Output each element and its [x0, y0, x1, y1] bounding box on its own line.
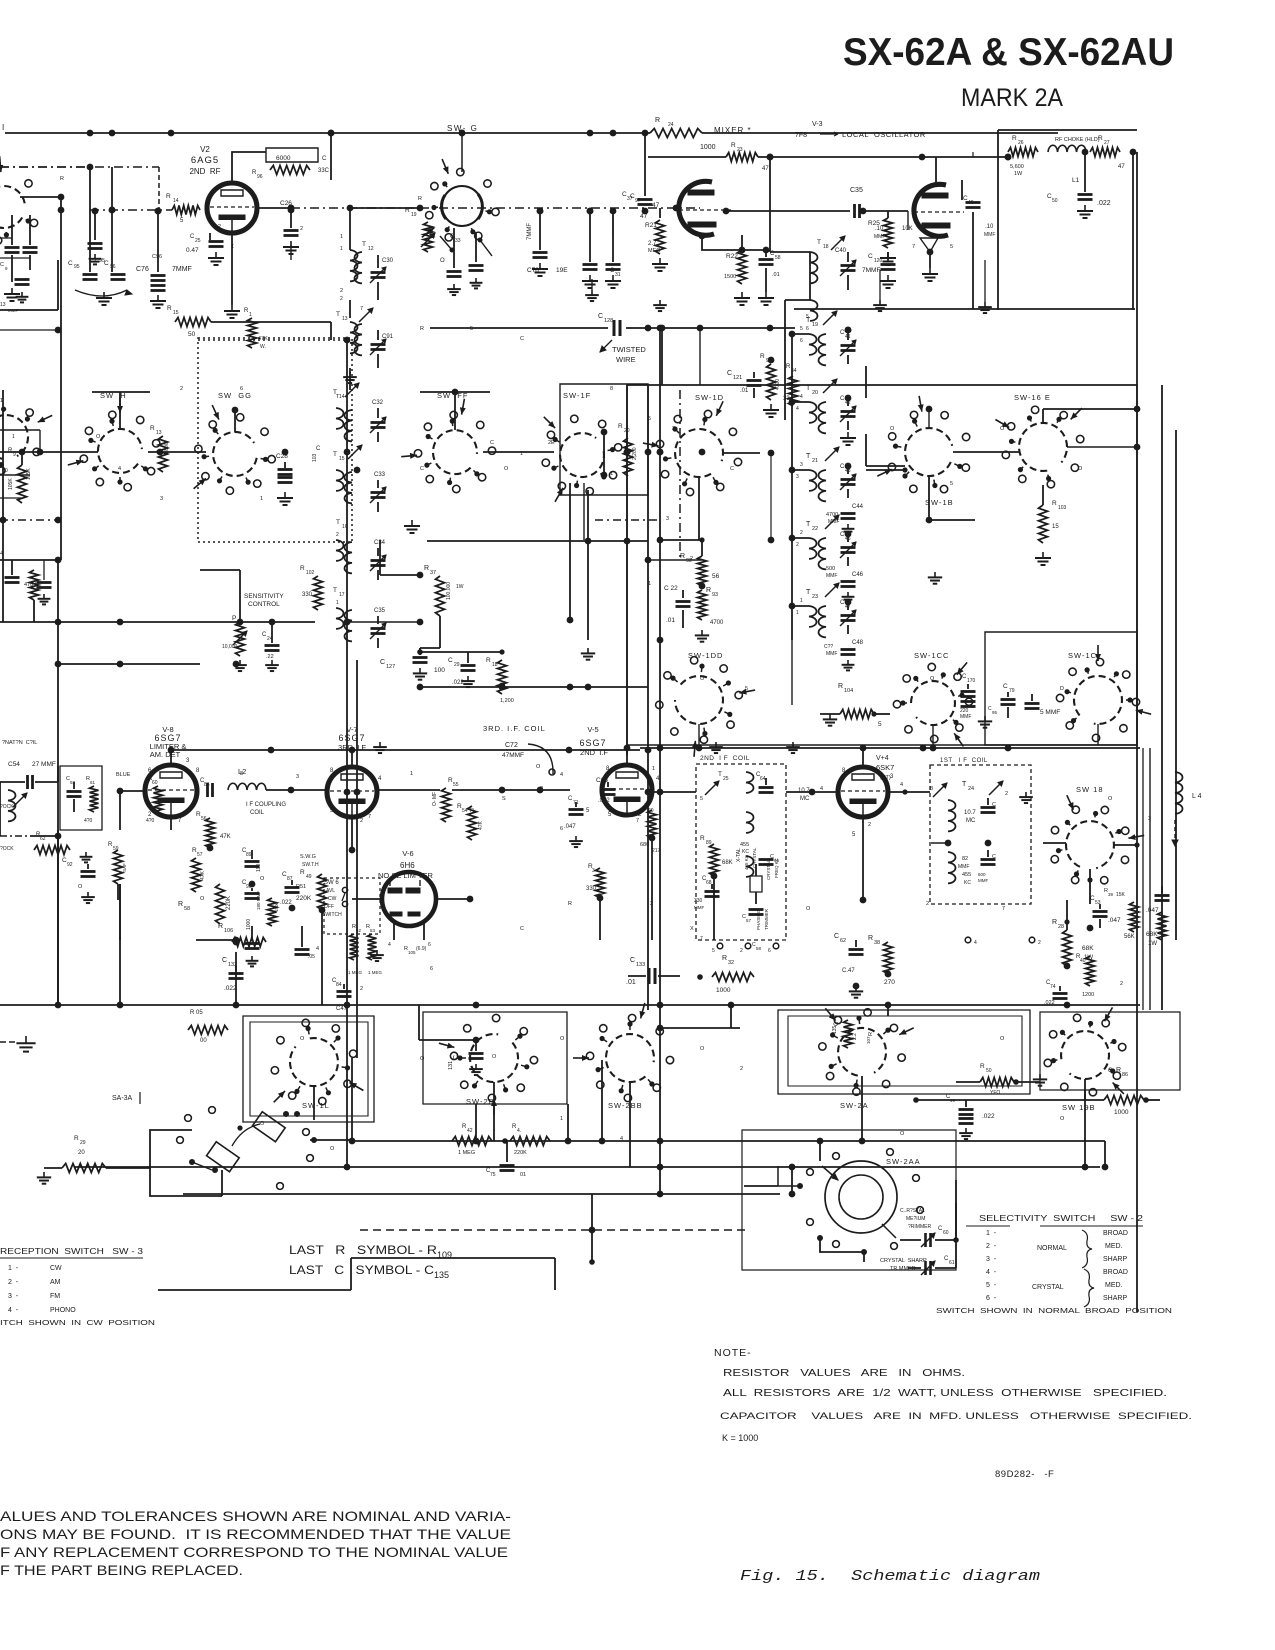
svg-text:C48: C48	[852, 640, 864, 646]
svg-text:68K: 68K	[1146, 931, 1158, 938]
svg-text:6: 6	[768, 948, 771, 954]
svg-text:R: R	[1052, 500, 1057, 507]
label V2 6AG5	[189, 145, 220, 176]
svg-text:15K: 15K	[1116, 892, 1126, 898]
svg-text:6: 6	[806, 326, 809, 332]
svg-text:6SG7: 6SG7	[338, 733, 365, 743]
svg-text:1200: 1200	[1082, 992, 1094, 998]
svg-text:24: 24	[668, 122, 674, 128]
svg-text:217: 217	[652, 848, 661, 854]
svg-text:C: C	[1003, 683, 1008, 690]
wire v x158	[155, 208, 162, 272]
wire R96 to bus	[328, 130, 335, 180]
svg-text:60: 60	[943, 1230, 949, 1236]
svg-text:47K: 47K	[478, 820, 484, 830]
svg-text:93: 93	[712, 592, 718, 598]
svg-text:455: 455	[962, 872, 971, 878]
label SA-3A	[112, 1092, 140, 1104]
svg-text:TRIMMER: TRIMMER	[764, 908, 769, 930]
svg-text:O: O	[78, 884, 83, 890]
wire y385 box top	[627, 384, 1137, 386]
wire twisted pair	[430, 313, 795, 336]
svg-text:5: 5	[648, 416, 651, 422]
svg-text:5: 5	[470, 326, 473, 332]
svg-text:330: 330	[586, 886, 597, 892]
svg-text:T: T	[817, 239, 821, 246]
wire h y1290	[158, 1258, 351, 1290]
svg-text:4700: 4700	[710, 620, 724, 626]
label C54 27MMF	[8, 761, 56, 768]
svg-text:KC: KC	[742, 849, 749, 855]
svg-text:58: 58	[184, 906, 190, 912]
wire sw18 links	[1043, 842, 1140, 930]
wire osc top right	[922, 154, 1011, 161]
label pin nums v5	[606, 766, 660, 824]
capacitor c-left mid	[5, 560, 39, 622]
box row2 right	[627, 385, 1137, 745]
wire sw19b link	[913, 1097, 1104, 1103]
node I left edge	[2, 123, 4, 132]
resistor R58	[178, 884, 232, 924]
svg-text:5: 5	[852, 832, 856, 838]
coil ant	[8, 790, 27, 821]
wire row1 y310	[0, 260, 58, 310]
svg-text:5: 5	[745, 686, 748, 692]
wire osc plate	[935, 157, 937, 183]
wire v x61	[60, 210, 62, 560]
wire h y1005	[0, 1004, 1140, 1006]
svg-text:R: R	[1116, 1067, 1121, 1074]
svg-text:68K: 68K	[1082, 945, 1094, 952]
transformer T25	[705, 771, 810, 833]
wire v6 cathode	[388, 922, 431, 955]
svg-text:K: K	[250, 191, 254, 197]
box left if	[60, 766, 102, 830]
svg-text:84: 84	[336, 982, 342, 988]
resistor R55	[432, 777, 459, 822]
tube V-7	[327, 767, 377, 817]
svg-text:4: 4	[820, 786, 823, 792]
svg-text:BLUE: BLUE	[116, 772, 131, 778]
svg-text:RF CHOKE (HLD): RF CHOKE (HLD)	[1055, 137, 1100, 143]
svg-text:R: R	[418, 196, 422, 202]
wire row2 dots net	[648, 477, 702, 560]
svg-text:R: R	[568, 901, 572, 907]
svg-text:C: C	[992, 802, 996, 808]
svg-text:12: 12	[368, 246, 374, 252]
wire v x998	[997, 130, 999, 310]
transformer T12	[340, 241, 374, 302]
svg-text:O: O	[700, 1046, 705, 1052]
svg-text:O: O	[700, 676, 705, 682]
resistor R93	[695, 587, 724, 642]
capacitor C41 var	[840, 327, 856, 364]
svg-text:SW-2B: SW-2B	[466, 1097, 495, 1106]
svg-text:61: 61	[949, 1260, 955, 1266]
capacitor C84	[332, 978, 352, 997]
svg-text:O: O	[806, 906, 811, 912]
box 1st if coil	[930, 765, 1031, 904]
svg-text:C40: C40	[835, 248, 847, 254]
switch wafer SW-2BB	[573, 1003, 674, 1102]
svg-text:82: 82	[962, 856, 968, 862]
wire x792 extension	[791, 640, 793, 705]
svg-text:2: 2	[650, 901, 653, 907]
label C47b	[336, 1006, 348, 1012]
label pin t numbers	[796, 338, 803, 616]
svg-text:R: R	[486, 657, 491, 664]
capacitor left extra	[37, 560, 52, 604]
svg-text:ALL RESISTORS ARE 1/2 WATT: ALL RESISTORS ARE 1/2 WATT, UNLESS OTHER…	[723, 1388, 1167, 1399]
svg-text:MIXER *: MIXER *	[714, 126, 752, 135]
svg-text:6,800: 6,800	[164, 442, 170, 455]
svg-text:.01: .01	[740, 388, 749, 394]
svg-text:1: 1	[340, 234, 343, 240]
svg-text:8: 8	[610, 386, 613, 392]
svg-text:2ND I F COIL: 2ND I F COIL	[700, 755, 750, 762]
svg-text:57: 57	[197, 852, 203, 858]
svg-text:2: 2	[360, 986, 363, 992]
svg-text:YFO: YFO	[990, 1090, 1000, 1096]
svg-text:58: 58	[756, 946, 762, 951]
svg-text:SENSITIVITY: SENSITIVITY	[244, 593, 284, 600]
wire bus x347	[346, 390, 348, 1058]
label SW-2AA	[886, 1157, 921, 1166]
wire h y309	[794, 308, 1135, 310]
svg-text:13: 13	[0, 302, 6, 308]
wire sa3a drops	[106, 1130, 352, 1196]
label 56K	[1124, 902, 1139, 940]
svg-text:55: 55	[453, 782, 459, 788]
resistor R105b	[188, 1010, 228, 1044]
wire h y1167	[75, 1166, 1133, 1168]
svg-text:37: 37	[430, 570, 436, 576]
coil T24 sec	[948, 852, 971, 886]
resistor R25	[868, 211, 913, 265]
svg-text:5: 5	[700, 796, 703, 802]
capacitor C76 7MMF	[136, 266, 192, 291]
label 5 2 6 pins	[586, 808, 642, 818]
svg-text:R: R	[74, 1135, 79, 1142]
svg-text:SWITCH: SWITCH	[322, 912, 342, 918]
capacitor C35b var	[370, 608, 386, 648]
svg-text:1500: 1500	[724, 274, 736, 280]
wire v x1133	[1130, 149, 1137, 310]
svg-text:220K: 220K	[514, 1150, 527, 1156]
svg-text:33: 33	[455, 238, 461, 244]
svg-text:O: O	[260, 876, 265, 882]
tube V-5	[602, 765, 652, 815]
capacitor C49	[962, 180, 995, 240]
svg-text:23: 23	[812, 594, 818, 600]
wire h y622 long	[0, 621, 315, 623]
svg-text:2ND RF: 2ND RF	[189, 167, 220, 176]
svg-text:R51: R51	[296, 884, 306, 890]
svg-text:.10: .10	[985, 224, 994, 230]
svg-text:.01: .01	[626, 979, 636, 986]
svg-text:C: C	[448, 657, 453, 664]
label R39	[1104, 888, 1126, 898]
svg-text:1: 1	[410, 771, 413, 777]
resistor R92	[680, 553, 720, 586]
svg-text:75: 75	[490, 1172, 496, 1178]
label sel shown	[936, 1306, 1172, 1315]
svg-text:2: 2	[300, 226, 303, 232]
resistor R20	[601, 423, 638, 478]
svg-text:270: 270	[884, 979, 895, 986]
svg-text:C: C	[834, 1021, 840, 1026]
tube V-4	[838, 767, 888, 817]
svg-text:5: 5	[586, 808, 590, 814]
label SW-1D	[695, 393, 724, 402]
resistor R13	[150, 425, 170, 472]
svg-text:1,200: 1,200	[500, 698, 514, 704]
wire left y520 dd	[0, 519, 60, 521]
svg-text:COIL: COIL	[250, 810, 265, 816]
wire t24 feed	[888, 782, 948, 843]
switch wafer SW-18	[1051, 795, 1144, 884]
svg-text:1 -: 1 -	[986, 1230, 997, 1237]
capacitor C62	[834, 933, 864, 998]
svg-text:97: 97	[635, 198, 641, 204]
label SW-16E	[1014, 393, 1051, 402]
svg-text:39: 39	[1108, 892, 1114, 897]
svg-text:4: 4	[900, 782, 903, 788]
svg-text:29: 29	[454, 662, 460, 668]
capacitor C121	[727, 370, 762, 398]
wire v drops bottom	[347, 1058, 1105, 1167]
svg-text:SW-1DD: SW-1DD	[688, 651, 723, 660]
svg-text:R: R	[470, 808, 474, 814]
svg-text:O: O	[260, 1121, 265, 1127]
svg-text:R: R	[424, 565, 429, 572]
svg-text:680: 680	[640, 842, 649, 848]
wire x660 long	[659, 385, 661, 1058]
dots bus top	[109, 130, 617, 137]
svg-text:MARK 2A: MARK 2A	[961, 84, 1063, 112]
label SW-19B	[1062, 1103, 1096, 1112]
switch wafer SW-1F	[542, 415, 622, 502]
svg-text:SW-2A: SW-2A	[840, 1101, 869, 1110]
svg-text:4: 4	[378, 776, 382, 782]
transformer T19	[800, 311, 837, 365]
wire y541	[427, 538, 648, 545]
svg-text:2ND I.F: 2ND I.F	[580, 748, 608, 757]
resistor R51R52	[348, 924, 383, 975]
ground extra right	[373, 742, 800, 753]
wire row4 drops	[314, 1076, 1088, 1170]
svg-text:1000: 1000	[716, 987, 731, 994]
capacitor C71	[564, 796, 584, 847]
label 47C	[536, 764, 563, 778]
svg-text:109: 109	[437, 1250, 452, 1260]
svg-text:R: R	[680, 553, 685, 560]
svg-text:SELECTIVITY SWITCH SW - 2: SELECTIVITY SWITCH SW - 2	[979, 1214, 1144, 1223]
resistor R106	[218, 919, 266, 947]
capacitor C57x	[742, 910, 764, 924]
svg-text:2: 2	[690, 556, 693, 562]
wire sw1dd feet	[696, 724, 1098, 751]
svg-text:4 -: 4 -	[986, 1269, 997, 1276]
svg-text:10.7: 10.7	[964, 810, 976, 816]
wire left grid	[20, 197, 64, 213]
resistor R54	[457, 803, 484, 840]
svg-text:1: 1	[249, 312, 252, 318]
transformer T14	[333, 383, 359, 441]
svg-text:R: R	[167, 305, 172, 312]
label last R symbol	[289, 1243, 452, 1260]
svg-text:?RIMMER: ?RIMMER	[908, 1224, 931, 1230]
svg-text:7: 7	[636, 818, 639, 824]
svg-text:7MMF: 7MMF	[862, 267, 880, 274]
svg-text:C30: C30	[382, 258, 394, 264]
svg-text:5: 5	[800, 326, 803, 332]
svg-text:C35: C35	[374, 608, 386, 614]
svg-text:96: 96	[110, 264, 116, 270]
box SW-2A inner	[788, 1016, 1022, 1086]
svg-text:128: 128	[604, 318, 613, 324]
triangle osc cathode	[912, 238, 953, 281]
wire v6 sides	[352, 896, 473, 903]
svg-text:C: C	[380, 659, 385, 666]
wire left y310b	[0, 327, 61, 334]
box SW-2B outer	[423, 1012, 567, 1104]
ground r50	[1033, 1074, 1047, 1086]
svg-text:O: O	[440, 258, 445, 264]
wire t18 links	[770, 157, 810, 340]
svg-text:(6.9): (6.9)	[416, 946, 427, 952]
svg-text:1: 1	[340, 246, 343, 252]
svg-text:P: P	[232, 615, 236, 622]
svg-text:RESISTOR VALUES ARE IN: RESISTOR VALUES ARE IN OHMS.	[723, 1368, 965, 1379]
svg-text:47MMF: 47MMF	[502, 752, 524, 759]
wire v8 left	[117, 788, 145, 830]
svg-text:R 05: R 05	[190, 1010, 203, 1016]
label MIXER	[714, 126, 752, 135]
wire x660 topextend	[659, 328, 661, 385]
wire sw16e top	[1043, 406, 1140, 423]
switch wafer SW-1D	[643, 401, 742, 495]
svg-text:22: 22	[812, 526, 818, 532]
svg-text:F THE PART BEING REPLACED.: F THE PART BEING REPLACED.	[0, 1563, 243, 1578]
svg-text:O: O	[330, 1146, 335, 1152]
svg-text:AM: AM	[50, 1279, 61, 1286]
capacitor C49b	[946, 1094, 995, 1139]
resistor R18	[486, 649, 514, 704]
svg-text:14: 14	[339, 394, 345, 400]
svg-text:6AG5: 6AG5	[191, 155, 219, 166]
label SW-GG	[218, 391, 252, 400]
label 3rd if coil	[483, 724, 553, 774]
label sel crystal	[1032, 1269, 1094, 1307]
svg-text:SAF: SAF	[122, 863, 127, 872]
svg-text:O: O	[504, 466, 509, 472]
capacitor C30 var	[370, 255, 394, 300]
svg-text:50: 50	[986, 1068, 992, 1074]
svg-text:25: 25	[195, 238, 201, 244]
resistor R9 105K	[8, 434, 32, 503]
svg-text:R: R	[655, 117, 660, 124]
svg-text:CW: CW	[328, 896, 337, 902]
capacitor C54	[0, 775, 58, 789]
svg-text:49: 49	[968, 200, 974, 206]
label SW-6	[322, 880, 342, 918]
svg-text:1: 1	[12, 434, 15, 440]
label last C symbol	[289, 1263, 449, 1280]
svg-text:R: R	[868, 935, 873, 942]
svg-text:MMF: MMF	[826, 651, 837, 657]
label crystal xtal	[736, 847, 757, 870]
svg-text:MMF: MMF	[984, 232, 995, 238]
svg-text:455: 455	[740, 842, 749, 848]
capacitor C95	[68, 260, 98, 280]
svg-text:1 MEG: 1 MEG	[368, 970, 383, 975]
capacitor C22	[664, 585, 691, 628]
wire bottom x592	[591, 1194, 593, 1230]
label pin nums v8	[148, 758, 200, 824]
svg-text:180 MMF: 180 MMF	[256, 891, 261, 910]
svg-text:133: 133	[636, 962, 645, 968]
box R20	[560, 384, 648, 495]
svg-text:3: 3	[186, 758, 190, 764]
svg-text:4: 4	[620, 1136, 623, 1142]
svg-text:C: C	[834, 933, 839, 940]
svg-text:32: 32	[728, 960, 734, 966]
svg-text:17: 17	[339, 592, 345, 598]
wire sw2aa drop	[789, 1138, 824, 1194]
svg-text:C: C	[490, 440, 494, 446]
svg-text:6: 6	[560, 826, 563, 832]
svg-text:R: R	[731, 142, 736, 149]
ground c79	[978, 706, 998, 728]
svg-text:2: 2	[796, 542, 799, 548]
svg-text:190: 190	[256, 863, 262, 872]
svg-text:127: 127	[386, 664, 395, 670]
svg-text:2.2: 2.2	[852, 1033, 858, 1040]
wire y687	[422, 684, 648, 691]
capacitor C74	[1044, 980, 1068, 1006]
resistor R49	[296, 869, 327, 910]
svg-text:6SG7: 6SG7	[579, 738, 606, 748]
wire sel col x1137 foot	[956, 1090, 1085, 1240]
svg-text:1500: 1500	[274, 901, 279, 912]
transformer T17	[333, 587, 352, 641]
svg-text:O: O	[200, 896, 205, 902]
wire left drops	[58, 766, 171, 1005]
label reception switch	[0, 1247, 144, 1258]
tube V-8	[145, 765, 197, 817]
svg-text:MMF: MMF	[978, 878, 988, 883]
transformer T23	[800, 583, 839, 637]
capacitor C68	[694, 876, 720, 910]
label left texts	[0, 262, 18, 557]
capacitor C170	[960, 674, 976, 720]
svg-text:.022: .022	[982, 1113, 995, 1120]
svg-text:7: 7	[912, 244, 915, 250]
switch wafer SW-2AA	[778, 1149, 923, 1255]
capacitor C40 var	[835, 248, 856, 290]
svg-text:SW GG: SW GG	[218, 391, 252, 400]
box SW-1L inner	[250, 1022, 368, 1116]
ground swff	[404, 520, 420, 533]
svg-text:R: R	[980, 1063, 985, 1070]
svg-text:21: 21	[812, 458, 818, 464]
svg-text:103: 103	[1058, 505, 1067, 511]
svg-text:C: C	[520, 926, 524, 932]
resistor R60	[146, 776, 163, 824]
wire row2 stub sw16e	[1067, 444, 1140, 451]
svg-text:1000: 1000	[700, 144, 716, 151]
